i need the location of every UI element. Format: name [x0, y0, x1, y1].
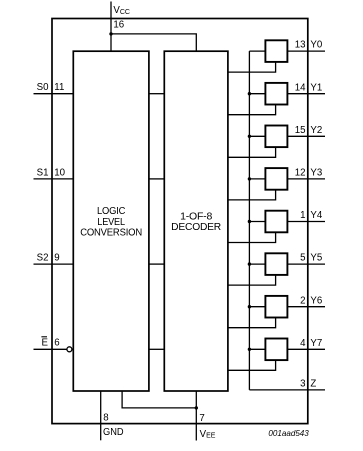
wire S2 level-shifted to decoder — [149, 263, 164, 265]
wire Z bus to switch Y6 — [249, 306, 265, 308]
wire switch to pin 15 Y2 — [287, 135, 325, 137]
junction VEE node — [195, 406, 198, 409]
svg-text:1: 1 — [300, 210, 305, 221]
pin 9 input S2 wire — [34, 263, 74, 265]
svg-text:Y0: Y0 — [310, 40, 322, 51]
junction Z bus node Y5 — [248, 262, 251, 265]
svg-text:Y1: Y1 — [310, 82, 322, 93]
svg-text:Y3: Y3 — [310, 168, 322, 179]
wire switch to pin 2 Y6 — [287, 306, 325, 308]
svg-text:E: E — [42, 338, 49, 349]
wire decoder select line 1 to switch Y1 — [228, 105, 276, 115]
svg-text:S2: S2 — [37, 253, 49, 264]
wire S0 level-shifted to decoder — [149, 93, 164, 95]
pin 6 input E-bar wire — [34, 348, 67, 350]
svg-text:S0: S0 — [37, 82, 49, 93]
pin 10 input S1 wire — [34, 178, 74, 180]
wire Z bus to switch Y1 — [249, 93, 265, 95]
svg-text:2: 2 — [300, 295, 305, 306]
svg-text:VCC: VCC — [113, 5, 130, 16]
wire Z bus to switch Y5 — [249, 263, 265, 265]
wire Z bus to switch Y4 — [249, 221, 265, 223]
IC package outline — [52, 19, 308, 424]
label E with overbar — [41, 337, 48, 349]
svg-text:VEE: VEE — [200, 429, 216, 440]
wire decoder select line 2 to switch Y2 — [228, 147, 276, 157]
wire E level-shifted to decoder — [149, 348, 164, 350]
wire switch to pin 12 Y3 — [287, 178, 325, 180]
svg-text:4: 4 — [300, 338, 306, 349]
block U1a LOGIC LEVEL CONVERSION — [73, 51, 149, 391]
pin 11 input S0 wire — [34, 93, 74, 95]
svg-text:15: 15 — [295, 125, 306, 136]
switch S7 for output Y7 — [265, 339, 287, 361]
inverter bubble on E input — [67, 347, 72, 352]
switch S4 for output Y4 — [265, 211, 287, 233]
svg-text:Y7: Y7 — [310, 338, 322, 349]
wire decoder select line 4 to switch Y4 — [228, 232, 276, 242]
svg-text:7: 7 — [199, 413, 204, 424]
wire logic block to VEE net — [122, 391, 196, 408]
svg-text:9: 9 — [54, 253, 59, 264]
svg-text:1-OF-8: 1-OF-8 — [180, 211, 213, 222]
svg-text:CONVERSION: CONVERSION — [80, 228, 142, 239]
svg-text:001aad543: 001aad543 — [268, 428, 309, 438]
svg-text:6: 6 — [54, 338, 59, 349]
wire decoder select line 0 to switch Y0 — [228, 62, 276, 72]
switch S6 for output Y6 — [265, 296, 287, 318]
wire Z bus to switch Y3 — [249, 178, 265, 180]
svg-text:12: 12 — [295, 168, 306, 179]
switch S1 for output Y1 — [265, 83, 287, 105]
wire switch to pin 1 Y4 — [287, 221, 325, 223]
wire VCC pin 16 vertical — [110, 2, 112, 52]
wire switch to pin 4 Y7 — [287, 348, 325, 350]
wire decoder select line 5 to switch Y5 — [228, 275, 276, 285]
wire switch to pin 14 Y1 — [287, 93, 325, 95]
svg-text:10: 10 — [54, 167, 65, 178]
svg-text:DECODER: DECODER — [171, 222, 221, 233]
svg-text:GND: GND — [103, 427, 124, 438]
block U1b 1-OF-8 DECODER — [164, 51, 228, 391]
wire switch to pin 5 Y5 — [287, 263, 325, 265]
wire S1 level-shifted to decoder — [149, 178, 164, 180]
wire VCC feed to decoder top — [111, 34, 196, 51]
pin 8 GND wire — [100, 391, 102, 440]
switch S5 for output Y5 — [265, 253, 287, 275]
junction Z bus node Y2 — [248, 135, 251, 138]
switch S2 for output Y2 — [265, 126, 287, 148]
svg-text:Y4: Y4 — [310, 210, 322, 221]
svg-text:13: 13 — [295, 40, 306, 51]
wire decoder select line 7 to switch Y7 — [228, 360, 276, 370]
junction Z bus node Y7 — [248, 348, 251, 351]
wire decoder select line 3 to switch Y3 — [228, 190, 276, 200]
junction VCC node — [109, 32, 112, 35]
junction Z bus node Y1 — [248, 92, 251, 95]
wire switch to pin 13 Y0 — [287, 50, 325, 52]
junction Z bus node Y4 — [248, 220, 251, 223]
switch S0 for output Y0 — [265, 40, 287, 62]
svg-text:Z: Z — [310, 379, 316, 390]
svg-text:S1: S1 — [37, 167, 49, 178]
svg-text:LEVEL: LEVEL — [97, 217, 125, 228]
svg-text:Y2: Y2 — [310, 125, 322, 136]
wire Z bus to switch Y0 — [249, 50, 265, 52]
svg-text:8: 8 — [103, 412, 108, 423]
svg-text:Y5: Y5 — [310, 253, 322, 264]
wire decoder select line 6 to switch Y6 — [228, 318, 276, 328]
switch S3 for output Y3 — [265, 168, 287, 190]
junction Z bus node Y6 — [248, 305, 251, 308]
pin 7 VEE wire — [195, 391, 197, 441]
svg-text:3: 3 — [300, 379, 305, 390]
svg-text:Y6: Y6 — [310, 295, 322, 306]
svg-text:11: 11 — [54, 82, 64, 93]
wire Z common bus — [248, 51, 250, 390]
svg-text:14: 14 — [295, 82, 306, 93]
junction Z bus node Y3 — [248, 177, 251, 180]
svg-text:LOGIC: LOGIC — [97, 206, 125, 217]
wire Z bus to switch Y2 — [249, 135, 265, 137]
wire Z bus to switch Y7 — [249, 348, 265, 350]
svg-text:16: 16 — [113, 20, 124, 31]
pin 3 common Z wire — [249, 389, 325, 391]
svg-text:5: 5 — [300, 253, 305, 264]
